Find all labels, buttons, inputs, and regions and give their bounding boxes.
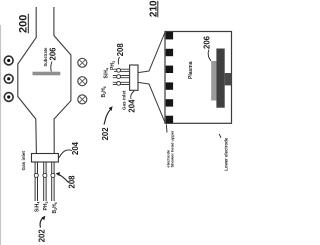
svg-text:204: 204 bbox=[127, 99, 136, 113]
svg-text:Plasma: Plasma bbox=[188, 61, 194, 79]
svg-text:electrode: electrode bbox=[165, 149, 170, 168]
svg-text:Gas inlet: Gas inlet bbox=[21, 151, 26, 171]
svg-text:Gas inlet: Gas inlet bbox=[121, 90, 126, 110]
svg-text:Shower head upper: Shower head upper bbox=[170, 130, 175, 168]
svg-text:206: 206 bbox=[202, 35, 211, 49]
svg-text:206: 206 bbox=[49, 47, 58, 61]
svg-text:208: 208 bbox=[116, 43, 125, 57]
svg-text:202: 202 bbox=[101, 127, 110, 141]
svg-text:202: 202 bbox=[38, 229, 47, 243]
svg-text:204: 204 bbox=[71, 141, 80, 155]
svg-text:208: 208 bbox=[67, 175, 76, 189]
svg-text:Substrate: Substrate bbox=[43, 47, 48, 67]
svg-text:Lower electrode: Lower electrode bbox=[223, 137, 228, 171]
